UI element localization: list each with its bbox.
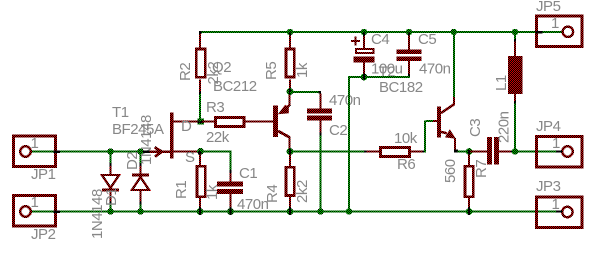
junction C2 ground — [317, 208, 323, 214]
value label 10k of R6 — [394, 130, 418, 147]
svg-text:R1: R1 — [173, 181, 190, 199]
transistor T2 BC182 — [437, 95, 458, 153]
value label 470n of C2 — [329, 92, 361, 109]
label R2 — [177, 63, 194, 81]
svg-text:2k2: 2k2 — [294, 180, 311, 203]
junction BC182 collector rail — [451, 29, 457, 35]
connector JP5 — [536, 16, 583, 47]
label C4 — [371, 31, 389, 48]
svg-text:JP5: JP5 — [536, 0, 561, 15]
label D1 — [103, 188, 120, 206]
label R1 — [173, 181, 190, 199]
label Q2 — [212, 59, 231, 76]
label R3 — [206, 99, 224, 116]
svg-text:1k: 1k — [204, 184, 221, 200]
junction C3 L1 JP4 node — [512, 148, 518, 154]
svg-text:R5: R5 — [263, 62, 280, 80]
svg-text:D: D — [181, 118, 192, 135]
wire JP2 to ground rail — [31, 211, 51, 213]
svg-text:JP2: JP2 — [31, 226, 56, 243]
wire R6 to BC182 base — [424, 120, 437, 153]
capacitor C5 — [397, 33, 422, 77]
value label BF245A — [112, 121, 164, 138]
capacitor C2 — [307, 91, 332, 212]
junction R5 top rail — [287, 29, 293, 36]
svg-text:R3: R3 — [206, 99, 224, 116]
svg-text:10k: 10k — [394, 130, 418, 147]
wire emitter node to C2 — [290, 91, 320, 93]
wire bottom ground rail — [31, 211, 562, 213]
svg-text:L1: L1 — [493, 75, 510, 91]
svg-text:JP1: JP1 — [31, 166, 56, 183]
wire top supply rail — [199, 31, 562, 33]
svg-text:JP4: JP4 — [536, 118, 561, 135]
junction R5 bottom emitter node — [287, 88, 294, 95]
label JP2 — [31, 226, 56, 243]
svg-text:BF245A: BF245A — [112, 121, 164, 138]
value label BC182 — [379, 79, 423, 96]
value label 22k of R3 — [206, 129, 230, 146]
label JP4 — [536, 118, 561, 135]
label R6 — [397, 156, 415, 173]
label L1 — [493, 75, 510, 91]
svg-text:C2: C2 — [329, 122, 347, 139]
label C1 — [239, 165, 257, 182]
label JP5 — [536, 0, 561, 15]
resistor R5 — [285, 33, 296, 92]
pin 1 label JP3 — [552, 196, 560, 213]
capacitor C4 electrolytic — [351, 33, 375, 77]
label R5 — [263, 62, 280, 80]
svg-text:R2: R2 — [177, 63, 194, 81]
junction C5 top rail — [406, 29, 412, 36]
node drain junction — [198, 118, 204, 124]
junction R4 ground — [287, 207, 294, 215]
svg-text:560: 560 — [442, 159, 459, 183]
svg-text:C3: C3 — [467, 119, 484, 137]
junction C1 ground — [227, 207, 234, 215]
value label 2k2 of R2 — [205, 62, 222, 85]
svg-text:1: 1 — [552, 196, 560, 213]
value label 1N4148 of D2 — [138, 115, 155, 165]
label R7 — [473, 160, 490, 178]
svg-text:S: S — [185, 149, 195, 166]
svg-text:470n: 470n — [329, 92, 361, 109]
svg-text:1: 1 — [552, 135, 560, 152]
transistor Q2 BC212 — [273, 94, 291, 150]
label JP1 — [31, 166, 56, 183]
wire R6 collector node — [367, 151, 380, 153]
svg-text:D1: D1 — [103, 188, 120, 206]
wire C4 C5 bottoms to ground drop — [348, 76, 410, 211]
svg-text:T1: T1 — [112, 104, 129, 121]
wire BC182 collector to top rail — [453, 33, 455, 97]
node source junction — [197, 148, 204, 155]
resistor R6 — [379, 146, 425, 158]
capacitor C1 — [217, 170, 243, 207]
junction emitter node — [466, 148, 473, 155]
value label 470n of C5 — [419, 61, 451, 78]
diode D1 — [102, 152, 119, 212]
value label 1N4148 of D1 — [89, 189, 106, 239]
junction C4 top rail — [361, 29, 367, 36]
junction D2 top — [137, 148, 143, 154]
connector JP3 — [537, 197, 583, 228]
svg-text:R4: R4 — [264, 185, 281, 203]
value label 2k2 of R4 — [294, 180, 311, 203]
junction D1 bottom — [107, 208, 113, 214]
svg-text:BC212: BC212 — [213, 78, 257, 95]
value label 470n of C1 — [237, 196, 269, 213]
inductor L1 — [508, 33, 523, 152]
resistor R3 — [202, 116, 274, 128]
svg-text:1: 1 — [31, 135, 39, 152]
value label 220n — [496, 111, 513, 143]
svg-text:1k: 1k — [294, 62, 311, 78]
value label 1k of R5 — [294, 62, 311, 78]
svg-text:C4: C4 — [371, 31, 389, 48]
value label BC212 — [213, 78, 257, 95]
label T2 of BC182 overlapping — [379, 64, 396, 81]
svg-text:R6: R6 — [397, 156, 415, 173]
pin 1 label JP1 — [31, 135, 39, 152]
svg-text:470n: 470n — [419, 61, 451, 78]
junction R7 ground — [466, 207, 473, 215]
svg-text:JP3: JP3 — [536, 178, 561, 195]
wire collector node row — [290, 151, 367, 153]
pin 1 label JP5 — [551, 15, 559, 32]
wire R2 bottom to drain node — [199, 92, 201, 122]
resistor R2 — [195, 31, 207, 92]
svg-text:BC182: BC182 — [379, 79, 423, 96]
junction D1 top — [107, 148, 113, 154]
junction C4 bottom node — [361, 74, 368, 81]
label C5 — [418, 31, 436, 48]
resistor R4 — [285, 152, 296, 207]
pin 1 label JP2 — [31, 194, 39, 211]
junction Q2 collector — [287, 148, 294, 155]
pin label D drain — [181, 118, 192, 135]
pin 1 label JP4 — [552, 135, 560, 152]
label D2 — [124, 152, 141, 170]
svg-text:Q2: Q2 — [212, 59, 231, 76]
value label 100u of C4 — [371, 61, 403, 78]
value label 1k of R1 — [204, 184, 221, 200]
wire top rail into JP5 — [556, 31, 557, 33]
label C2 — [329, 122, 347, 139]
label C3 — [467, 119, 484, 137]
wire source node to C1 — [200, 151, 232, 171]
svg-text:220n: 220n — [496, 111, 513, 143]
connector JP1 — [14, 136, 61, 167]
svg-text:C1: C1 — [239, 165, 257, 182]
capacitor C3 — [470, 137, 515, 165]
label R4 — [264, 185, 281, 203]
junction D2 bottom — [137, 208, 143, 214]
pin label S source — [185, 149, 195, 166]
connector JP2 — [14, 196, 61, 227]
svg-text:22k: 22k — [206, 129, 230, 146]
transistor T1 JFET BF245A — [143, 113, 199, 159]
value label 560 of R7 — [442, 159, 459, 183]
wire BC182 emitter to node — [458, 151, 468, 153]
resistor R7 — [464, 152, 475, 207]
wire JP1 to T1 gate — [31, 151, 152, 153]
junction R1 ground — [197, 207, 204, 215]
svg-text:1: 1 — [551, 15, 559, 32]
label JP3 — [536, 178, 561, 195]
resistor R1 — [196, 152, 207, 207]
svg-text:C5: C5 — [418, 31, 436, 48]
diode D2 — [132, 152, 149, 212]
junction L1 top rail — [512, 29, 518, 35]
label T1 — [112, 104, 129, 121]
wire node to JP4 — [515, 151, 562, 153]
connector JP4 — [537, 137, 583, 168]
svg-text:1: 1 — [31, 194, 39, 211]
junction ground drop at rail — [346, 208, 352, 214]
